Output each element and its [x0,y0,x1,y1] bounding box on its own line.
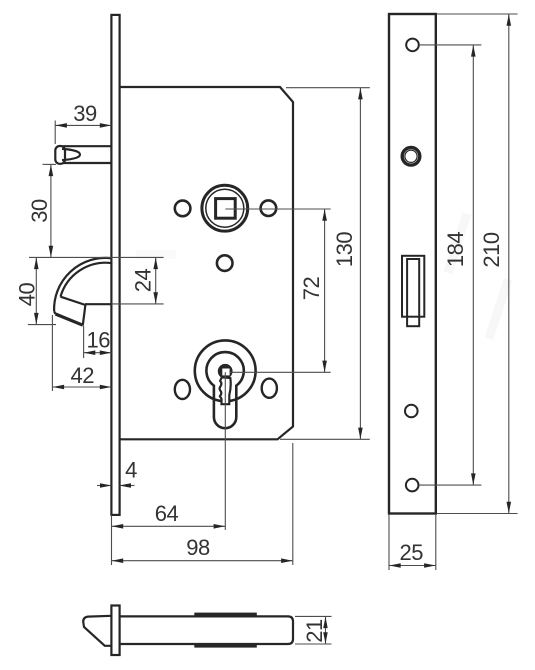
bottom view bottom cover strip [194,643,256,647]
latch inside slot [407,259,419,326]
dimension 25 [389,540,436,568]
dimension 184 [443,45,476,485]
bottom view top cover strip [194,613,256,617]
dimension 16 [84,328,112,356]
dimension 42 [52,363,111,389]
euro cylinder outer circle [195,340,256,401]
latch bolt side view [55,146,111,164]
dimension 210 [479,14,511,514]
svg-text:39: 39 [73,101,97,126]
faceplate front view [389,14,436,514]
svg-text:40: 40 [15,283,40,307]
svg-text:72: 72 [299,277,324,301]
hook bolt side view [54,258,111,325]
dimension 39 [55,101,111,128]
countersunk hole [402,148,420,166]
svg-text:4: 4 [125,458,137,483]
svg-text:24: 24 [130,269,155,293]
svg-text:210: 210 [479,232,504,267]
keyway detail [218,364,233,404]
right spindle screw hole [261,200,277,216]
bottom view faceplate [111,606,119,656]
watermark [136,212,512,340]
left spindle screw hole [175,201,191,217]
svg-text:25: 25 [400,540,424,565]
svg-text:98: 98 [186,535,210,560]
svg-text:184: 184 [443,232,468,267]
dimension 30 [27,164,53,257]
dimension 24 [130,257,158,304]
dimension 72 [299,209,327,372]
svg-text:16: 16 [87,328,111,353]
middle hole [405,405,418,418]
euro cylinder keyhole profile [206,352,243,428]
dimension 64 [112,501,226,529]
svg-text:21: 21 [302,619,327,643]
bottom view latch head [83,616,111,646]
bottom view body [120,616,294,644]
right cylinder oval hole [262,379,277,398]
svg-text:30: 30 [27,199,52,223]
left cylinder oval hole [175,380,190,399]
dimension 4 [100,458,137,488]
spindle hub [202,185,248,231]
faceplate side view [111,15,119,515]
svg-text:130: 130 [332,232,357,267]
dimension 21 [302,616,328,644]
dimension 98 [112,535,293,563]
svg-text:64: 64 [155,501,179,526]
lock body outline [120,87,294,439]
dimension 40 [15,257,40,324]
latch window slot [402,256,424,317]
small hole below spindle [217,255,233,271]
bottom screw hole [406,479,419,492]
dimension 130 [332,88,363,440]
top screw hole [406,39,419,52]
svg-text:42: 42 [71,363,95,388]
